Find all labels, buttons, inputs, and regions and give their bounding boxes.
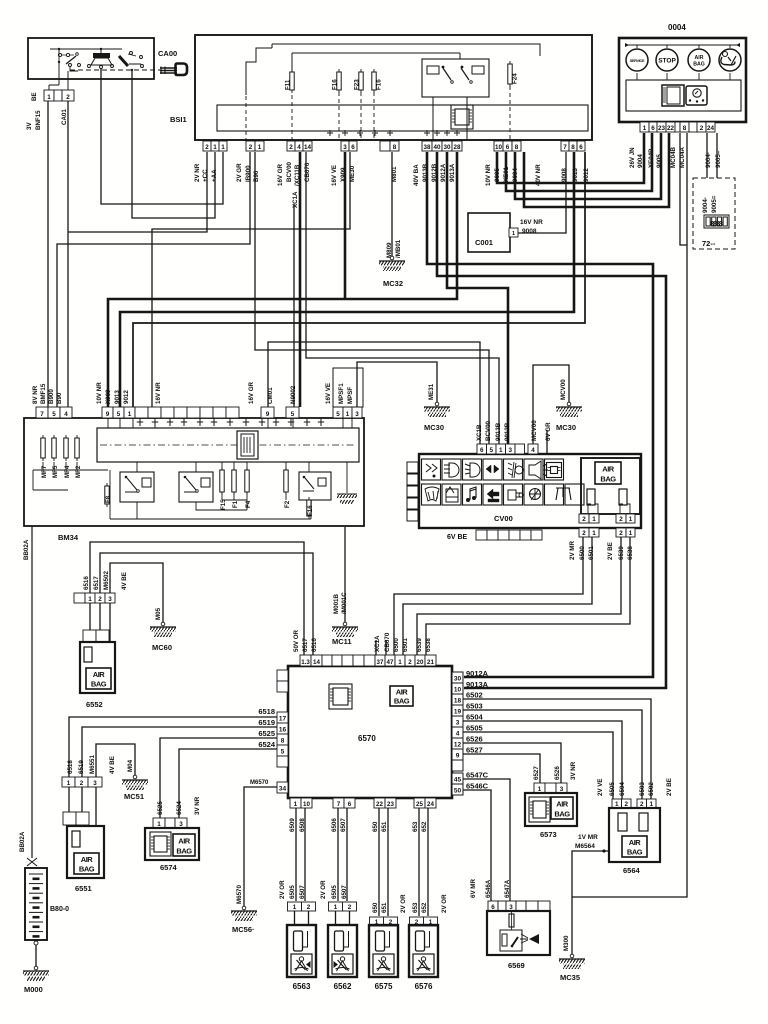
svg-text:F15: F15 (220, 499, 227, 510)
svg-text:SERVICE: SERVICE (630, 59, 645, 63)
wire 9005 bold (506, 133, 652, 191)
BM34 connector 7 5 4 (36, 407, 48, 418)
svg-text:MC04B: MC04B (670, 146, 677, 168)
svg-text:10: 10 (495, 144, 503, 151)
svg-text:2: 2 (307, 904, 311, 911)
wire 6518 (69, 717, 277, 777)
warning lamp circle SERVICE (626, 49, 648, 71)
wire 6500 (394, 537, 583, 655)
svg-text:9: 9 (266, 411, 270, 418)
svg-text:25: 25 (416, 801, 423, 808)
connector 6573 pins (534, 783, 545, 793)
svg-text:28: 28 (453, 144, 461, 151)
C001 pin (509, 228, 518, 237)
pretensioner 6563 (288, 902, 302, 911)
wire MC04A long (572, 133, 687, 897)
svg-text:XC1A: XC1A (292, 191, 299, 208)
svg-text:MCV00: MCV00 (531, 420, 538, 441)
svg-text:6505: 6505 (609, 782, 616, 796)
splice X (27, 858, 37, 866)
comfort unit CV00 box (419, 454, 641, 528)
6570 top connector (300, 655, 311, 666)
6569 switch box (500, 930, 522, 951)
fuse F18 (373, 69, 375, 93)
svg-text:BAG: BAG (554, 810, 570, 819)
BSI connector 40V BA pins 38 40 30 28 (422, 141, 432, 151)
svg-text:6517: 6517 (302, 638, 309, 652)
svg-text:9004-: 9004- (702, 197, 709, 213)
svg-text:5: 5 (336, 411, 340, 418)
svg-text:23: 23 (387, 801, 394, 808)
svg-text:9012: 9012 (583, 168, 590, 182)
fuse MF7 (42, 435, 44, 461)
svg-text:MF2: MF2 (75, 465, 82, 478)
CV00 airbag resistor 1 (588, 504, 598, 513)
svg-text:B80-0: B80-0 (50, 906, 69, 913)
wire XE04B bold (515, 133, 661, 199)
svg-text:6573: 6573 (540, 830, 557, 839)
svg-text:16V NR: 16V NR (155, 382, 162, 404)
svg-text:1: 1 (88, 596, 92, 603)
BSI connector 16V VE pins 3 6 (341, 141, 349, 151)
svg-text:2V BE: 2V BE (607, 542, 614, 560)
BSI connector 2V NR pins 2 1 1 (203, 141, 211, 151)
svg-text:14: 14 (304, 144, 312, 151)
BSI inner top line (246, 44, 540, 140)
svg-text:BAG: BAG (79, 865, 95, 874)
svg-text:8888: 8888 (710, 221, 723, 228)
battery cells (29, 873, 43, 875)
wire 6504 (463, 721, 622, 799)
fuse F15 (221, 467, 223, 495)
svg-text:X909: X909 (105, 389, 112, 404)
svg-text:8V NR: 8V NR (32, 385, 39, 404)
svg-text:1: 1 (499, 447, 503, 454)
svg-text:2: 2 (98, 596, 102, 603)
cluster inner box (626, 80, 741, 111)
side airbag 6552 box (80, 642, 115, 693)
svg-text:1: 1 (346, 411, 350, 418)
CV00 right pins row1 (579, 514, 589, 523)
6573 ic (529, 797, 550, 822)
BSI connector 2V GR pins 2 1 (246, 141, 255, 151)
relay K3 box (299, 472, 331, 500)
6551 airbag label (74, 853, 99, 874)
wire 40V BA 3 bold to CV00 (447, 152, 508, 445)
wire 9004- option (706, 133, 708, 178)
svg-text:1: 1 (294, 801, 298, 808)
svg-text:F16: F16 (376, 79, 383, 90)
relay K2 (184, 478, 196, 492)
fuse F23 (360, 69, 362, 93)
svg-text:MC56·: MC56· (232, 925, 255, 934)
svg-text:M6551: M6551 (89, 755, 96, 774)
svg-text:M6570: M6570 (236, 885, 243, 904)
svg-text:16V VE: 16V VE (331, 165, 338, 186)
svg-text:18: 18 (454, 698, 462, 705)
driver airbag 6551 box (67, 826, 104, 878)
wire 6509 (295, 808, 297, 901)
ground MC30 left (435, 402, 439, 406)
option display 8888 (704, 215, 729, 228)
svg-text:AIR: AIR (93, 670, 106, 679)
svg-text:1: 1 (512, 231, 515, 237)
svg-text:6547C: 6547C (466, 771, 489, 780)
ground MC35 (570, 954, 574, 958)
svg-text:6500: 6500 (393, 638, 400, 652)
fuse F1 (233, 467, 235, 495)
svg-text:5: 5 (291, 411, 295, 418)
BM34 left rail wire (33, 462, 108, 490)
svg-text:2V MR: 2V MR (569, 541, 576, 560)
svg-text:650: 650 (372, 821, 379, 832)
svg-text:651: 651 (381, 821, 388, 832)
svg-text:5: 5 (117, 411, 121, 418)
svg-text:9013A: 9013A (466, 680, 489, 689)
cluster connector pins (640, 122, 649, 132)
svg-text:6508: 6508 (299, 818, 306, 832)
svg-text:1.3: 1.3 (301, 659, 310, 666)
svg-text:F16: F16 (307, 505, 314, 516)
svg-text:BAG: BAG (693, 62, 705, 68)
fuse F16b (308, 497, 310, 519)
svg-text:6507: 6507 (341, 885, 348, 899)
svg-text:1: 1 (615, 801, 619, 808)
wire CM01 to XC1B (268, 342, 480, 445)
ignition switch contacts (50, 49, 122, 53)
svg-text:22: 22 (376, 801, 383, 808)
svg-text:9008: 9008 (561, 168, 568, 182)
svg-text:CV00: CV00 (494, 514, 513, 523)
svg-text:MC60: MC60 (152, 643, 172, 652)
svg-text:20: 20 (417, 659, 424, 666)
svg-text:14: 14 (313, 659, 320, 666)
svg-text:10V NR: 10V NR (96, 382, 103, 404)
dashed option box 72 (693, 178, 735, 249)
svg-text:24: 24 (427, 801, 434, 808)
svg-text:3: 3 (93, 780, 97, 787)
wire M6564 (572, 851, 609, 954)
svg-text:6546C: 6546C (466, 782, 489, 791)
BM34 connector 9 5 1 (102, 407, 113, 418)
wire 6539 (417, 537, 621, 655)
svg-text:1: 1 (258, 144, 262, 151)
BSI switch box (422, 59, 489, 97)
svg-text:4: 4 (531, 447, 535, 454)
svg-text:1: 1 (538, 786, 542, 793)
6564 resistor 2 (639, 813, 648, 831)
svg-text:BB02A: BB02A (19, 831, 26, 852)
svg-text:M04: M04 (127, 759, 134, 772)
svg-text:F23: F23 (354, 79, 361, 90)
ground MC56 (242, 906, 246, 910)
BSI unit box (195, 35, 592, 140)
svg-text:4V BE: 4V BE (109, 756, 116, 774)
svg-text:BAG: BAG (394, 697, 410, 706)
svg-text:1: 1 (592, 530, 596, 537)
wire M801 to MC32 (391, 152, 393, 256)
6570 bottom connector (290, 798, 301, 808)
6552 plug (83, 630, 96, 642)
wire 6505 (463, 732, 613, 799)
6570 ic symbol (329, 684, 352, 709)
svg-text:B90: B90 (253, 170, 260, 182)
BSI connector 16V GR pins 2 4 14 (287, 141, 295, 151)
svg-text:6516: 6516 (311, 638, 318, 652)
svg-text:F2: F2 (284, 500, 291, 508)
CV00 airbag label (595, 462, 621, 484)
wire XC1A stub (376, 640, 386, 655)
BM34 inner rail (97, 428, 359, 462)
svg-text:21: 21 (427, 659, 434, 666)
svg-text:6562: 6562 (334, 982, 352, 991)
svg-text:F24: F24 (512, 73, 519, 84)
CV00 right pins row2 (579, 528, 589, 537)
svg-text:24: 24 (707, 125, 715, 132)
svg-text:6524: 6524 (258, 740, 276, 749)
connector 6574 pins (153, 818, 165, 828)
svg-text:BAG: BAG (91, 680, 107, 689)
svg-text:6569: 6569 (508, 961, 525, 970)
svg-text:1: 1 (334, 904, 338, 911)
svg-text:3: 3 (509, 904, 513, 911)
side airbag 6573 box (525, 793, 577, 826)
impact sensor 6569 box (487, 911, 550, 955)
wire 6506 (337, 808, 339, 901)
BSI connector 10V NR pins 10 6 8 (494, 141, 503, 151)
svg-text:F11: F11 (285, 79, 292, 90)
svg-text:6539: 6539 (416, 638, 423, 652)
wire 6503 (463, 710, 642, 799)
wire 6547C (463, 779, 510, 901)
CV00 airbag resistor 2 (620, 504, 630, 513)
svg-text:9: 9 (456, 753, 460, 760)
CV00 left connector column (407, 462, 418, 473)
BSI inner strip (217, 105, 588, 131)
svg-text:1: 1 (629, 530, 633, 537)
wire ME30 to BM34 strip (152, 152, 350, 407)
relay K1 box (120, 472, 154, 502)
svg-text:M000: M000 (24, 985, 43, 994)
6569 fuse (509, 914, 514, 927)
BM34 connector 16V NR strip (135, 407, 148, 418)
ground M000 (34, 966, 38, 970)
svg-text:9005=: 9005= (715, 150, 722, 168)
svg-text:652: 652 (421, 821, 428, 832)
svg-text:3V NR: 3V NR (570, 761, 577, 780)
svg-text:1: 1 (592, 516, 596, 523)
6564 airbag label (622, 836, 647, 857)
ground MC30 right (567, 402, 571, 406)
svg-text:1V MR: 1V MR (578, 834, 598, 841)
svg-text:6525: 6525 (157, 801, 164, 815)
wire 6524 (179, 749, 277, 818)
svg-text:6526: 6526 (554, 766, 561, 780)
wire 9004 bold (497, 133, 644, 183)
6573 airbag label (551, 797, 573, 819)
ignition switch CA00 box (28, 38, 154, 79)
BM34 rail connector symbol (237, 431, 258, 459)
svg-text:3: 3 (456, 720, 460, 727)
svg-text:5: 5 (489, 447, 493, 454)
battery B800 box (25, 868, 47, 940)
svg-text:4: 4 (456, 731, 460, 738)
6570 right connector (452, 672, 463, 683)
svg-text:C001: C001 (475, 238, 493, 247)
warning lamp circle icon (719, 49, 741, 71)
BM34 MPSF frame (333, 368, 363, 407)
wire BB02A (31, 526, 33, 858)
svg-text:8: 8 (515, 144, 519, 151)
pretensioner 6576 (410, 917, 424, 926)
svg-text:1: 1 (629, 516, 633, 523)
wire 6517 (100, 553, 313, 655)
svg-text:2V NR: 2V NR (194, 163, 201, 182)
wire 40V BA 1 bold (427, 152, 653, 677)
wires 6552 connector to unit (90, 603, 110, 642)
svg-text:AIR: AIR (556, 800, 569, 809)
svg-text:MF7: MF7 (41, 465, 48, 478)
svg-text:8: 8 (281, 738, 285, 745)
svg-text:2: 2 (619, 530, 623, 537)
fuse F8 (106, 483, 108, 507)
CV00 top connector 4 (528, 444, 538, 454)
svg-text:3: 3 (560, 786, 564, 793)
svg-text:6: 6 (506, 144, 510, 151)
BSI connector 40V NR pins 7 8 6 (561, 141, 569, 151)
relay K3 (303, 478, 314, 491)
svg-text:6V BE: 6V BE (447, 534, 468, 541)
wire MCV00 to MC30 (533, 365, 569, 445)
svg-text:1: 1 (649, 801, 653, 808)
lamp child-seat icon (723, 52, 728, 57)
svg-text:6516: 6516 (83, 576, 90, 590)
svg-text:M300: M300 (563, 935, 570, 951)
svg-text:9013A: 9013A (449, 163, 456, 182)
fuse F4 (246, 467, 248, 495)
svg-text:ME31: ME31 (428, 383, 435, 400)
svg-text:1: 1 (47, 94, 51, 101)
wire 6V GR stub (546, 430, 548, 454)
passenger airbag 6574 box (145, 828, 199, 860)
svg-text:MF4: MF4 (64, 465, 71, 478)
wire 6525 (160, 738, 277, 818)
svg-text:MC11: MC11 (332, 637, 352, 646)
svg-text:6504: 6504 (466, 713, 484, 722)
wire battery to M000 (35, 945, 37, 966)
svg-text:652: 652 (421, 902, 428, 913)
wire 6508 (304, 808, 306, 901)
wire CA01 to BM34 (67, 101, 69, 407)
6552 airbag label (86, 668, 111, 689)
wire 6527 (463, 754, 540, 783)
svg-text:3: 3 (108, 596, 112, 603)
6569 switch (502, 934, 507, 946)
svg-text:22: 22 (667, 125, 675, 132)
svg-text:16V NR: 16V NR (520, 219, 543, 226)
svg-text:M6570: M6570 (250, 780, 269, 786)
svg-text:BSI1: BSI1 (170, 115, 187, 124)
battery terminal (34, 941, 38, 945)
svg-text:5: 5 (281, 749, 285, 756)
svg-text:1: 1 (157, 821, 161, 828)
svg-text:CA01: CA01 (61, 109, 68, 125)
wire XC1A bold to BM34 (299, 152, 302, 407)
instrument cluster 0004 box (619, 38, 746, 122)
BSI dashed feeders (246, 86, 510, 140)
wire BM34 M001B to MC11 (344, 527, 346, 622)
fuse F2 (285, 467, 287, 495)
ground MC11 (343, 622, 347, 626)
svg-text:6525: 6525 (258, 729, 275, 738)
svg-text:6574: 6574 (160, 863, 178, 872)
connector 6569 pins (488, 901, 498, 911)
wire CP01 branch to BSI (68, 152, 207, 232)
svg-text:BE: BE (31, 92, 38, 101)
svg-text:XC1B: XC1B (476, 424, 483, 441)
svg-text:MC30: MC30 (424, 423, 444, 432)
connector 6552 pins (74, 593, 85, 603)
CV00 function icons (422, 459, 441, 480)
wire M6551 to MC51 (96, 744, 135, 777)
svg-text:2: 2 (700, 125, 704, 132)
svg-text:+CC: +CC (202, 169, 209, 182)
wire IB900 to BM34 strip (57, 152, 250, 407)
svg-text:CB670: CB670 (384, 632, 391, 652)
svg-text:40: 40 (433, 144, 441, 151)
svg-text:6519: 6519 (258, 718, 275, 727)
svg-text:MCV00: MCV00 (560, 379, 567, 400)
svg-text:BMF15: BMF15 (40, 383, 47, 404)
svg-text:2: 2 (582, 530, 586, 537)
svg-text:AIR: AIR (81, 855, 94, 864)
BM34 inner verticals (108, 418, 352, 519)
svg-text:2: 2 (582, 516, 586, 523)
wire B90 to BM34 (255, 152, 489, 446)
svg-text:6546A: 6546A (485, 879, 492, 898)
BSI inner connector symbol (451, 105, 473, 129)
svg-text:2V OR: 2V OR (400, 894, 407, 913)
svg-text:3V: 3V (26, 122, 33, 130)
svg-text:72--: 72-- (702, 239, 716, 248)
svg-text:6V MR: 6V MR (470, 879, 477, 898)
svg-text:6501: 6501 (402, 638, 409, 652)
svg-text:2: 2 (348, 904, 352, 911)
svg-text:IB900: IB900 (245, 165, 252, 182)
svg-text:12: 12 (454, 742, 462, 749)
svg-text:8: 8 (571, 144, 575, 151)
svg-text:6507: 6507 (299, 885, 306, 899)
warning lamp circle icon (688, 49, 710, 71)
svg-text:1: 1 (221, 144, 225, 151)
svg-text:2: 2 (205, 144, 209, 151)
svg-text:CB670: CB670 (304, 162, 311, 182)
svg-text:AIR: AIR (695, 55, 704, 61)
svg-text:4V BE: 4V BE (121, 572, 128, 590)
svg-text:2: 2 (619, 516, 623, 523)
svg-text:6503: 6503 (639, 782, 646, 796)
wire M6502 to MC60 (110, 563, 163, 622)
relay K1 (125, 478, 137, 492)
svg-text:2: 2 (408, 659, 412, 666)
svg-text:10: 10 (454, 687, 462, 694)
svg-text:6: 6 (351, 144, 355, 151)
svg-text:2: 2 (289, 144, 293, 151)
BM34 connector 5 1 3 (333, 407, 343, 418)
svg-text:BCV00: BCV00 (286, 161, 293, 182)
svg-text:MC32: MC32 (383, 279, 403, 288)
svg-text:MC51: MC51 (124, 792, 144, 801)
